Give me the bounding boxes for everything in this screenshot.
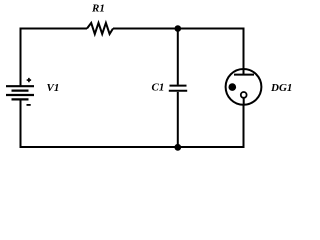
wire right vertical below tube [243,105,245,148]
battery V1 [6,78,59,105]
wire right vertical into tube [243,28,245,75]
wire left vertical lower [20,99,22,148]
node junction top [175,25,182,32]
wire left vertical upper [20,28,22,87]
svg-text:C1: C1 [152,81,165,93]
svg-text:R1: R1 [91,3,105,15]
wire bottom left segment [20,146,178,148]
wire bottom right segment [178,146,245,148]
wire top right segment [178,28,245,30]
svg-text:DG1: DG1 [270,82,292,94]
capacitor C1 [152,29,188,148]
node junction bottom [174,144,181,151]
wire top middle segment [113,28,178,30]
resistor R1 [87,3,113,34]
svg-text:V1: V1 [47,82,60,94]
discharge tube DG1 [226,69,293,105]
wire top-left horizontal segment [20,28,88,30]
